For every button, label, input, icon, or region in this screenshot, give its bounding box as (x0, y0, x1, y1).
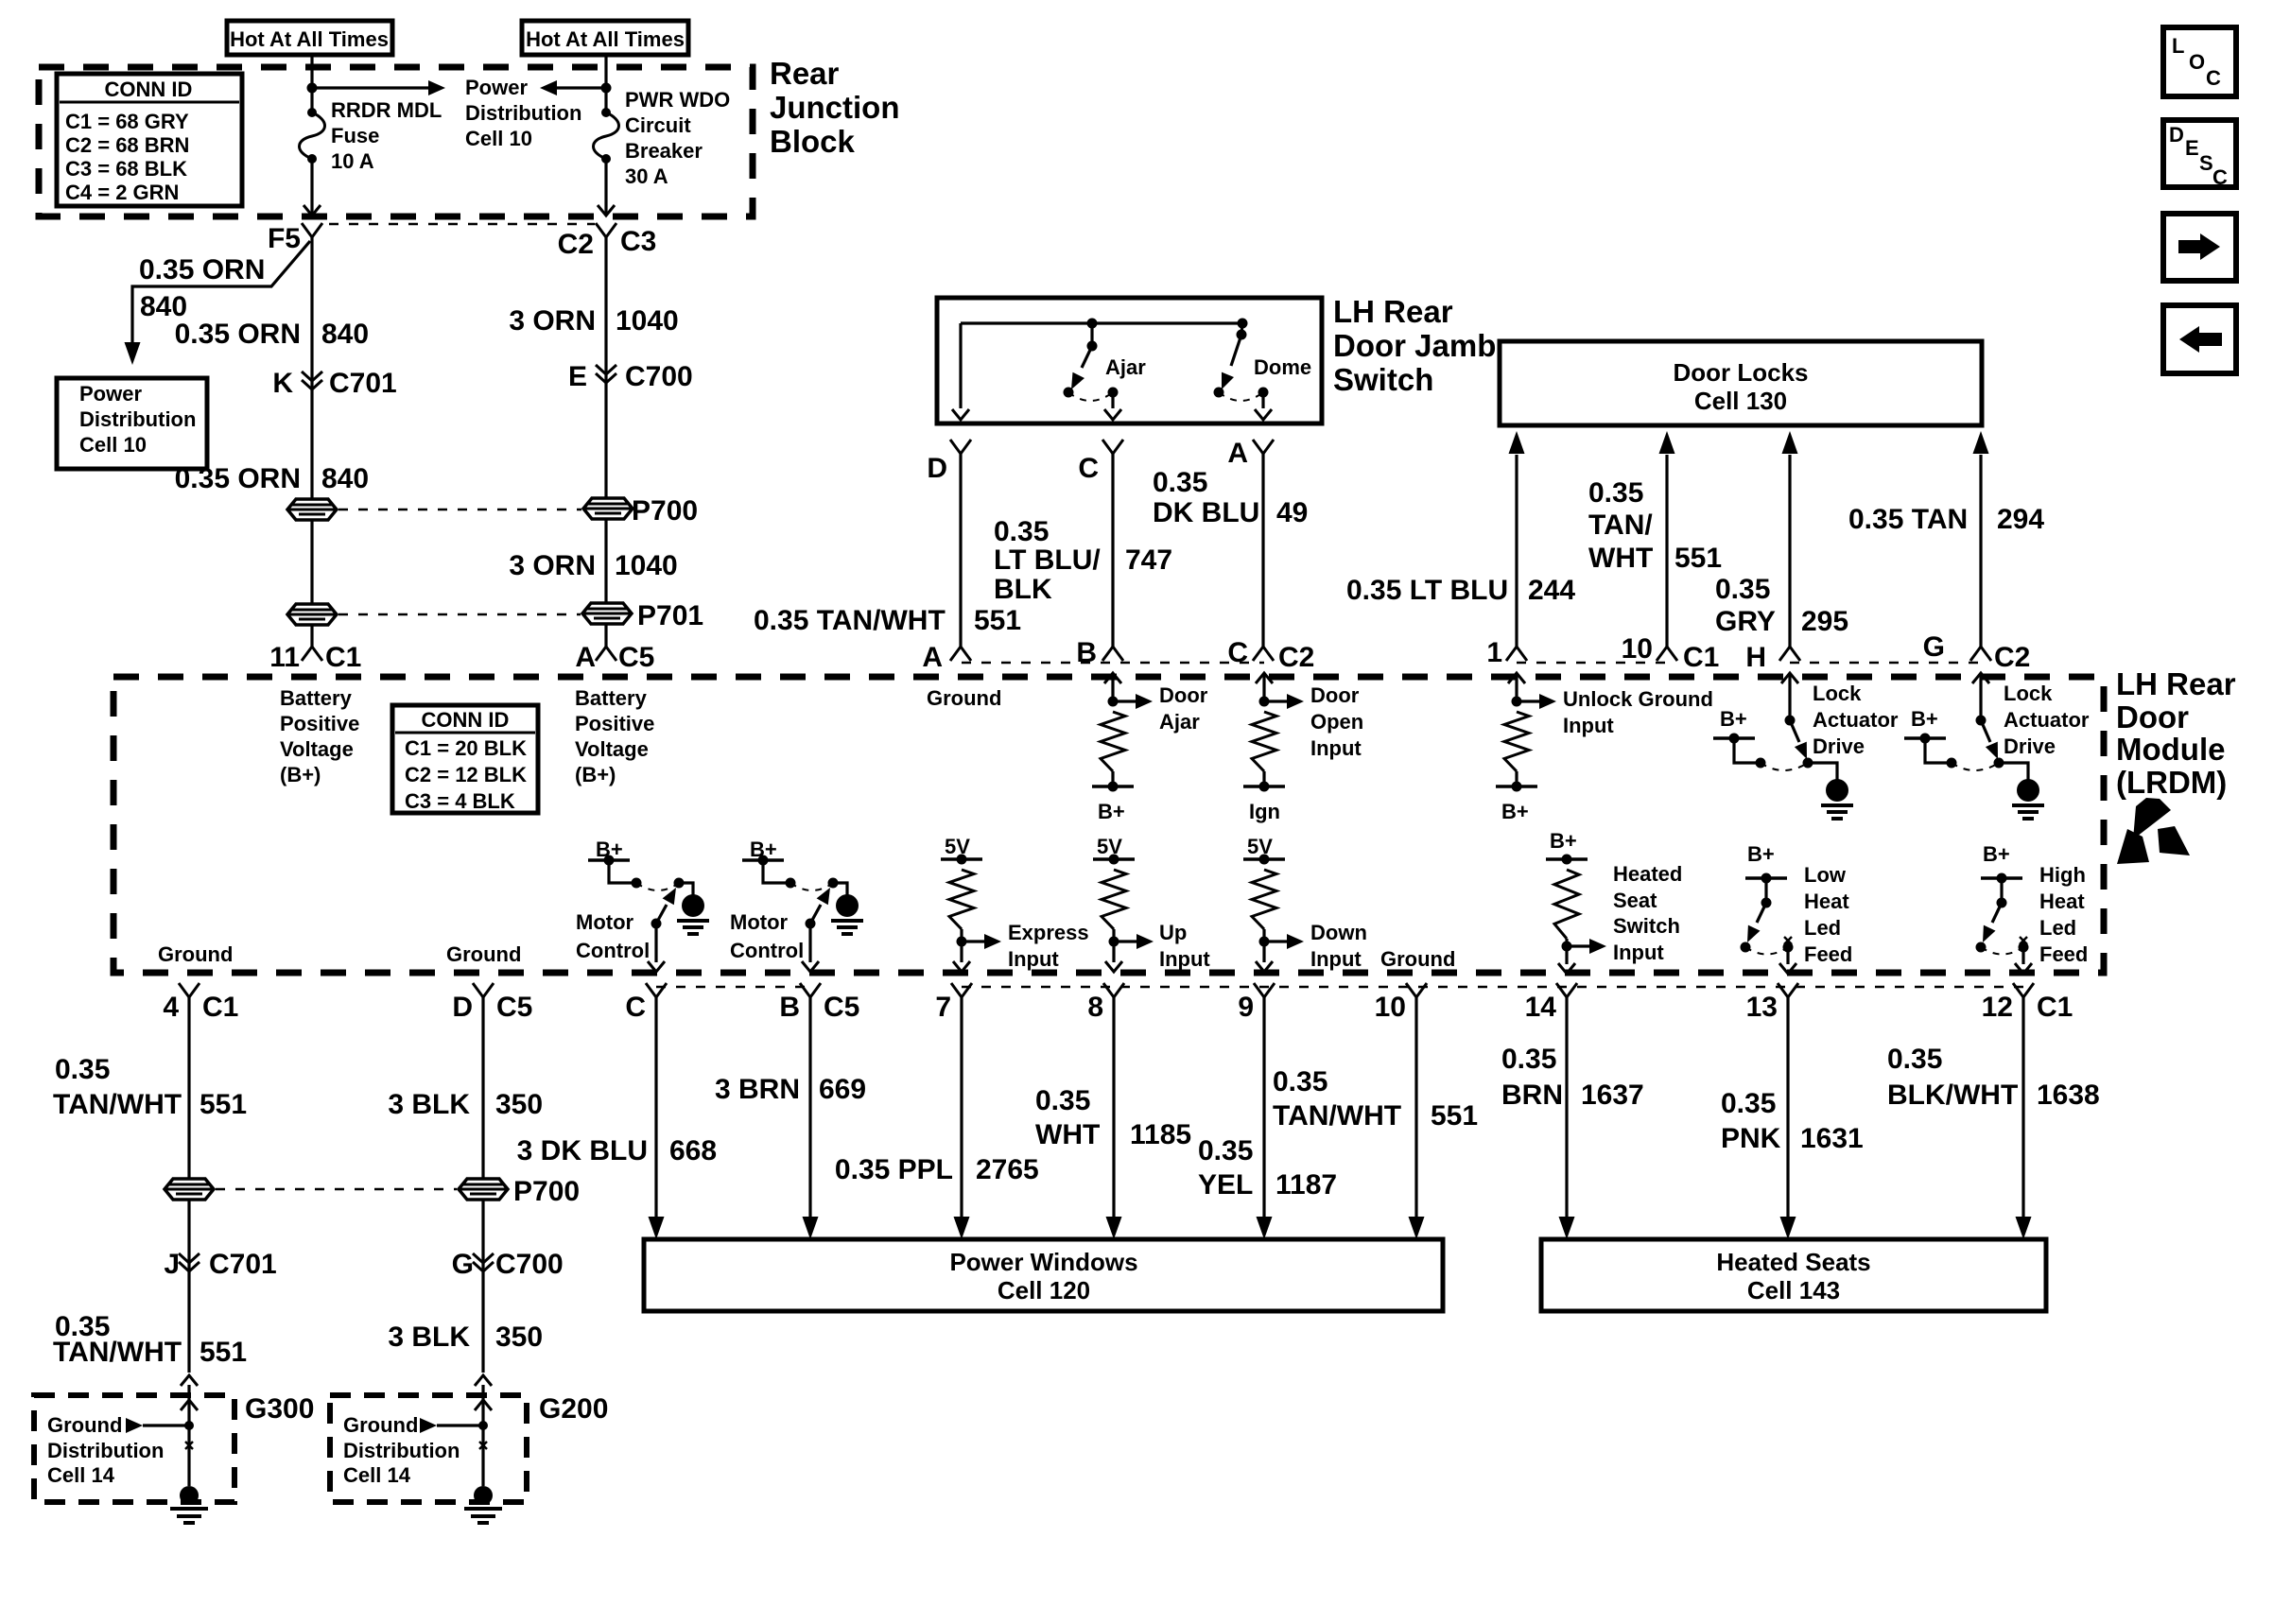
wire pin 8 (0.35 WHT 1185) (1112, 997, 1115, 1217)
wire A to module pin 11 (310, 625, 313, 647)
module pin 12 C1 (bottom) (2013, 983, 2034, 997)
svg-text:C2 = 12 BLK: C2 = 12 BLK (405, 763, 527, 786)
Hot At All Times box 2 (522, 21, 688, 55)
svg-text:0.35: 0.35 (1715, 574, 1770, 605)
svg-text:1040: 1040 (616, 305, 679, 337)
resistor Door (1111, 673, 1114, 701)
connector G C700 (481, 1200, 484, 1373)
svg-text:0.35 ORN: 0.35 ORN (175, 319, 301, 350)
svg-text:0.35 PPL: 0.35 PPL (835, 1154, 953, 1185)
svg-text:G200: G200 (539, 1393, 608, 1425)
svg-text:Heated Seats: Heated Seats (1716, 1248, 1870, 1276)
wire A (0.35 ORN 840) (310, 237, 313, 499)
svg-text:Ajar: Ajar (1105, 355, 1146, 379)
svg-text:J: J (164, 1249, 180, 1280)
svg-text:F5: F5 (268, 223, 301, 254)
svg-text:B+: B+ (1550, 829, 1577, 853)
svg-text:LT BLU/: LT BLU/ (994, 544, 1101, 576)
wire pin 10 to Door Locks (1665, 455, 1668, 647)
svg-text:Dome: Dome (1254, 355, 1311, 379)
svg-text:C1: C1 (1683, 642, 1719, 673)
wire A between P700 and P701 (310, 520, 313, 604)
ground distribution box G200 (330, 1395, 527, 1502)
svg-text:C1 = 68 GRY: C1 = 68 GRY (65, 110, 189, 133)
svg-text:Ground: Ground (158, 942, 233, 966)
svg-text:13: 13 (1746, 992, 1778, 1023)
svg-text:LH Rear: LH Rear (2116, 666, 2236, 701)
svg-text:5V: 5V (945, 835, 970, 858)
wire B between connectors (604, 519, 607, 603)
svg-text:D: D (927, 453, 947, 484)
module pin 10 (bottom) (1406, 983, 1427, 997)
wire pin 14 (0.35 BRN 1637) (1565, 997, 1568, 1217)
svg-text:0.35: 0.35 (1035, 1085, 1090, 1116)
wire pin B (3 BRN 669) (808, 997, 811, 1217)
module pin 8 (bottom) (1103, 983, 1124, 997)
wire pin C (3 DK BLU 668) (654, 997, 657, 1217)
svg-text:P700: P700 (632, 495, 698, 527)
svg-text:Breaker: Breaker (625, 139, 703, 163)
connector C2 / C3 (596, 223, 616, 237)
right arrow box (2163, 214, 2236, 281)
module pin B (1102, 647, 1123, 661)
inline connector P700 (left pair) (287, 499, 337, 520)
wire pin 10 (0.35 TAN/WHT 551) (1414, 997, 1417, 1217)
svg-text:Ign: Ign (1249, 800, 1280, 823)
svg-text:3 BLK: 3 BLK (388, 1089, 470, 1120)
svg-text:Junction: Junction (770, 90, 900, 125)
svg-text:High: High (2039, 863, 2086, 887)
module pin D C5 (bottom) (473, 983, 494, 997)
inline connector P701 (287, 604, 337, 625)
svg-text:Feed: Feed (1804, 942, 1852, 966)
module pin G C2 (1970, 647, 1991, 661)
connector F5 (junction block) (302, 223, 322, 237)
fuse RRDR MDL 10A (300, 112, 325, 159)
svg-text:B+: B+ (1098, 800, 1125, 823)
svg-text:Led: Led (1804, 916, 1841, 940)
wire branch 0.35 ORN 840 (132, 241, 310, 342)
svg-text:Motor: Motor (576, 910, 634, 934)
svg-text:BRN: BRN (1501, 1080, 1563, 1111)
svg-text:Door Locks: Door Locks (1673, 358, 1808, 387)
svg-text:G300: G300 (245, 1393, 314, 1425)
svg-text:O: O (2189, 50, 2205, 74)
svg-text:Voltage: Voltage (280, 737, 354, 761)
svg-text:0.35: 0.35 (1153, 467, 1207, 498)
svg-text:668: 668 (669, 1135, 717, 1166)
node: junction dot wire B top (601, 83, 612, 94)
splice mark on G200 wire (479, 1442, 487, 1449)
svg-text:49: 49 (1276, 497, 1308, 528)
svg-text:C1: C1 (2037, 992, 2073, 1023)
svg-text:Cell 14: Cell 14 (47, 1463, 115, 1487)
svg-text:Cell 130: Cell 130 (1694, 387, 1787, 415)
svg-text:WHT: WHT (1035, 1119, 1100, 1150)
Rear Junction Block dashed box (39, 67, 753, 216)
svg-text:3 BRN: 3 BRN (715, 1074, 800, 1105)
Heated Seats Cell 143 box (1541, 1239, 2046, 1311)
module pin A C5 (596, 647, 616, 661)
svg-text:551: 551 (974, 605, 1021, 636)
svg-text:Control: Control (730, 939, 804, 962)
svg-text:C1 = 20 BLK: C1 = 20 BLK (405, 736, 527, 760)
svg-text:Door: Door (1159, 683, 1208, 707)
jamb internal top wire (961, 321, 1242, 324)
svg-text:1631: 1631 (1800, 1123, 1864, 1154)
svg-text:Cell 10: Cell 10 (79, 433, 147, 457)
wire jamb C to module pin B (1111, 454, 1114, 647)
svg-text:C2: C2 (1278, 642, 1314, 673)
svg-text:C2: C2 (1994, 642, 2030, 673)
svg-text:5V: 5V (1097, 835, 1122, 858)
ground G200 (474, 1486, 493, 1505)
svg-text:CONN ID: CONN ID (422, 708, 510, 732)
svg-text:Input: Input (1310, 947, 1362, 971)
svg-text:TAN/WHT: TAN/WHT (1273, 1100, 1401, 1132)
DESC box (2163, 120, 2236, 187)
svg-text:C701: C701 (329, 368, 397, 399)
svg-text:840: 840 (321, 319, 369, 350)
wire: hot feed into circuit breaker (604, 55, 607, 112)
svg-text:Up: Up (1159, 921, 1187, 944)
svg-text:RRDR MDL: RRDR MDL (331, 98, 442, 122)
svg-text:Block: Block (770, 124, 856, 159)
wire pin 12 (0.35 BLK/WHT 1638) (2021, 997, 2024, 1217)
svg-text:Battery: Battery (280, 686, 353, 710)
splice mark on G300 wire (185, 1442, 193, 1449)
jamb connector C (1102, 440, 1123, 454)
svg-text:C3 = 4 BLK: C3 = 4 BLK (405, 789, 515, 813)
svg-text:Switch: Switch (1333, 362, 1433, 397)
svg-text:Led: Led (2039, 916, 2076, 940)
switch Lock Actuator Drive (1979, 673, 1982, 720)
svg-text:244: 244 (1528, 575, 1575, 606)
arrow (left) to Power Distribution (555, 86, 606, 89)
svg-text:669: 669 (819, 1074, 866, 1105)
svg-text:5V: 5V (1247, 835, 1273, 858)
Door Locks Cell 130 box (1500, 341, 1982, 425)
svg-text:350: 350 (495, 1089, 543, 1120)
svg-text:Motor: Motor (730, 910, 789, 934)
svg-text:B+: B+ (1747, 842, 1775, 866)
svg-text:D: D (2169, 123, 2184, 147)
svg-text:Door Jamb: Door Jamb (1333, 328, 1496, 363)
svg-text:Input: Input (1563, 714, 1614, 737)
svg-text:C2 = 68 BRN: C2 = 68 BRN (65, 133, 189, 157)
svg-text:C4 = 2 GRN: C4 = 2 GRN (65, 181, 179, 204)
module pin C (bottom) (646, 983, 667, 997)
svg-text:Cell 14: Cell 14 (343, 1463, 411, 1487)
wire B (3 ORN 1040) (604, 237, 607, 498)
svg-text:3 DK BLU: 3 DK BLU (517, 1135, 648, 1166)
svg-text:C2: C2 (558, 229, 594, 260)
resistor Unlock Ground Input (1515, 673, 1518, 701)
svg-text:G: G (1923, 631, 1945, 663)
svg-text:295: 295 (1801, 606, 1848, 637)
resistor Door (1262, 673, 1265, 701)
svg-text:Input: Input (1613, 941, 1664, 964)
svg-text:0.35 TAN: 0.35 TAN (1848, 504, 1968, 535)
svg-text:551: 551 (1431, 1100, 1478, 1132)
svg-text:C3 = 68 BLK: C3 = 68 BLK (65, 157, 187, 181)
svg-text:E: E (568, 361, 587, 392)
module pin 10 C1 (1657, 647, 1677, 661)
module pin 11 C1 (302, 647, 322, 661)
svg-text:0.35: 0.35 (1273, 1066, 1327, 1097)
inline connector P700 (bottom pair) (165, 1179, 214, 1200)
svg-text:0.35: 0.35 (55, 1054, 110, 1085)
Power Distribution Cell 10 box (57, 378, 207, 469)
svg-text:A: A (922, 642, 943, 673)
svg-text:B: B (779, 992, 800, 1023)
svg-text:Heated: Heated (1613, 862, 1682, 886)
jamb Ajar switch (1087, 319, 1098, 329)
svg-text:Ground: Ground (927, 686, 1001, 710)
svg-text:TAN/: TAN/ (1588, 510, 1653, 541)
svg-text:Lock: Lock (2004, 682, 2053, 705)
svg-text:Cell 143: Cell 143 (1747, 1276, 1840, 1304)
jamb connector D (950, 440, 971, 454)
module pin 7 (bottom) (951, 983, 972, 997)
svg-text:Distribution: Distribution (79, 407, 196, 431)
svg-text:1637: 1637 (1581, 1080, 1644, 1111)
svg-text:Down: Down (1310, 921, 1367, 944)
svg-text:Hot At All Times: Hot At All Times (230, 27, 389, 51)
svg-text:P700: P700 (513, 1176, 580, 1207)
svg-text:3 ORN: 3 ORN (509, 305, 596, 337)
svg-text:PNK: PNK (1721, 1123, 1781, 1154)
svg-text:0.35: 0.35 (994, 516, 1049, 547)
svg-text:294: 294 (1997, 504, 2044, 535)
svg-text:Express: Express (1008, 921, 1089, 944)
svg-text:YEL: YEL (1198, 1169, 1253, 1201)
module pin 4 C1 (bottom) (179, 983, 200, 997)
svg-text:Door: Door (1310, 683, 1360, 707)
svg-text:840: 840 (321, 463, 369, 494)
thin dashed pin lines (bottom row) (656, 986, 810, 989)
svg-text:C: C (625, 992, 646, 1023)
svg-text:0.35 ORN: 0.35 ORN (139, 254, 265, 285)
svg-text:C700: C700 (625, 361, 693, 392)
svg-text:Lock: Lock (1813, 682, 1862, 705)
connector E C700 (596, 365, 616, 374)
svg-text:1185: 1185 (1130, 1119, 1191, 1150)
svg-text:0.35: 0.35 (1887, 1044, 1942, 1075)
svg-text:Distribution: Distribution (343, 1439, 460, 1462)
svg-text:A: A (1227, 438, 1248, 469)
LH Rear Door Jamb Switch box (937, 298, 1322, 423)
svg-text:0.35 LT BLU: 0.35 LT BLU (1346, 575, 1508, 606)
svg-text:1: 1 (1486, 637, 1502, 668)
svg-text:S: S (2199, 151, 2213, 175)
svg-text:2765: 2765 (976, 1154, 1039, 1185)
svg-text:Actuator: Actuator (1813, 708, 1899, 732)
svg-text:Low: Low (1804, 863, 1847, 887)
wire pin 7 (0.35 PPL 2765) (960, 997, 963, 1217)
svg-text:Ground: Ground (1380, 947, 1455, 971)
wire pin H to Door Locks (1788, 455, 1791, 647)
svg-text:Power Windows: Power Windows (949, 1248, 1137, 1276)
svg-text:C700: C700 (495, 1249, 564, 1280)
module pin C C2 (1253, 647, 1274, 661)
svg-text:B+: B+ (1911, 707, 1938, 731)
svg-text:10 A: 10 A (331, 149, 374, 173)
svg-text:747: 747 (1125, 544, 1172, 576)
svg-text:Drive: Drive (2004, 734, 2056, 758)
jamb left leg to pin D (959, 323, 962, 408)
svg-text:B+: B+ (1983, 842, 2010, 866)
svg-text:0.35: 0.35 (1588, 477, 1643, 509)
svg-text:8: 8 (1087, 992, 1103, 1023)
svg-text:Power: Power (79, 382, 142, 406)
LOC box (2163, 27, 2236, 96)
svg-text:Battery: Battery (575, 686, 648, 710)
arrow to Power Distribution Cell 10 (312, 86, 430, 89)
svg-text:Ground: Ground (446, 942, 521, 966)
svg-text:CONN ID: CONN ID (105, 78, 193, 101)
svg-text:Drive: Drive (1813, 734, 1865, 758)
wire jamb D to module pin A (959, 454, 962, 647)
svg-text:TAN/WHT: TAN/WHT (53, 1089, 182, 1120)
svg-text:BLK: BLK (994, 574, 1052, 605)
thin dashed pin lines (top row) (962, 662, 1264, 665)
module pin H (1779, 647, 1800, 661)
wire below breaker with down arrow (604, 159, 607, 215)
svg-text:(LRDM): (LRDM) (2116, 765, 2227, 800)
svg-text:Rear: Rear (770, 56, 840, 91)
svg-text:7: 7 (935, 992, 951, 1023)
svg-text:C701: C701 (209, 1249, 277, 1280)
svg-text:Unlock Ground: Unlock Ground (1563, 687, 1713, 711)
wire pin G to Door Locks (1979, 455, 1982, 647)
svg-text:Hot At All Times: Hot At All Times (526, 27, 685, 51)
svg-text:DK BLU: DK BLU (1153, 497, 1259, 528)
CONN ID table (module) (392, 705, 538, 813)
svg-text:0.35: 0.35 (1721, 1088, 1776, 1119)
svg-text:B+: B+ (1720, 707, 1747, 731)
jamb Dome switch (1238, 319, 1248, 329)
svg-text:Cell 120: Cell 120 (998, 1276, 1090, 1304)
svg-text:L: L (2172, 34, 2184, 58)
svg-text:Switch: Switch (1613, 914, 1680, 938)
ground G300 (180, 1486, 199, 1505)
wire pin 9 (0.35 YEL 1187) (1262, 997, 1265, 1217)
svg-text:PWR WDO: PWR WDO (625, 88, 730, 112)
svg-text:TAN/WHT: TAN/WHT (53, 1337, 182, 1368)
wire below fuse with down arrow (310, 159, 313, 215)
svg-text:(B+): (B+) (575, 763, 616, 786)
dashed connector line F5 to C2/C3 (329, 223, 595, 226)
svg-text:Cell 10: Cell 10 (465, 127, 532, 150)
svg-text:0.35 ORN: 0.35 ORN (175, 463, 301, 494)
svg-text:551: 551 (1674, 543, 1722, 574)
svg-text:BLK/WHT: BLK/WHT (1887, 1080, 2018, 1111)
svg-text:Circuit: Circuit (625, 113, 691, 137)
svg-text:Fuse: Fuse (331, 124, 379, 147)
svg-text:9: 9 (1238, 992, 1254, 1023)
svg-text:H: H (1745, 642, 1766, 673)
svg-text:Positive: Positive (575, 712, 654, 735)
connector K C701 (302, 371, 322, 381)
svg-text:Feed: Feed (2039, 942, 2088, 966)
left arrow box (2163, 305, 2236, 373)
svg-text:C1: C1 (325, 642, 361, 673)
svg-text:Heat: Heat (1804, 890, 1849, 913)
ground distribution box G300 (34, 1395, 234, 1502)
svg-text:LH Rear: LH Rear (1333, 294, 1453, 329)
svg-text:1187: 1187 (1275, 1169, 1337, 1201)
svg-text:4: 4 (163, 992, 179, 1023)
module pin 14 (bottom) (1556, 983, 1577, 997)
svg-text:C1: C1 (202, 992, 238, 1023)
svg-text:Module: Module (2116, 732, 2225, 767)
svg-text:1638: 1638 (2037, 1080, 2100, 1111)
svg-text:C: C (2212, 165, 2228, 189)
CONN ID table (junction block) (57, 74, 242, 206)
svg-text:3 BLK: 3 BLK (388, 1322, 470, 1353)
svg-text:C5: C5 (824, 992, 859, 1023)
wire pin 1 to Door Locks (1515, 455, 1518, 647)
svg-text:D: D (452, 992, 473, 1023)
svg-text:551: 551 (200, 1089, 247, 1120)
svg-text:G: G (452, 1249, 474, 1280)
svg-text:C: C (2206, 66, 2221, 90)
svg-text:P701: P701 (637, 600, 703, 631)
svg-text:Ajar: Ajar (1159, 710, 1200, 734)
wire jamb A to module pin C (1261, 454, 1264, 647)
module pin 9 (bottom) (1254, 983, 1275, 997)
svg-text:30 A: 30 A (625, 164, 668, 188)
svg-text:Control: Control (576, 939, 650, 962)
svg-text:C5: C5 (496, 992, 532, 1023)
svg-text:0.35: 0.35 (1198, 1135, 1253, 1166)
svg-text:Voltage: Voltage (575, 737, 649, 761)
svg-text:Input: Input (1159, 947, 1210, 971)
module pin 13 (bottom) (1778, 983, 1798, 997)
circuit breaker PWR WDO 30A (594, 112, 619, 159)
Hot At All Times box 1 (227, 21, 392, 55)
svg-text:Power: Power (465, 76, 528, 99)
svg-text:C5: C5 (618, 642, 654, 673)
connector J C701 (187, 1200, 190, 1373)
svg-text:GRY: GRY (1715, 606, 1776, 637)
svg-text:12: 12 (1982, 992, 2013, 1023)
svg-text:Input: Input (1008, 947, 1059, 971)
svg-text:Open: Open (1310, 710, 1363, 734)
module pin 1 (1506, 647, 1527, 661)
svg-text:C: C (1078, 453, 1099, 484)
svg-text:Distribution: Distribution (465, 101, 581, 125)
wire pin D (3 BLK 350) (481, 997, 484, 1179)
svg-text:C3: C3 (620, 226, 656, 257)
svg-text:WHT: WHT (1588, 543, 1653, 574)
svg-text:Positive: Positive (280, 712, 359, 735)
svg-text:11: 11 (269, 642, 300, 673)
svg-text:K: K (272, 368, 293, 399)
svg-text:E: E (2185, 136, 2199, 160)
Power Windows Cell 120 box (644, 1239, 1443, 1311)
ESD sensitive symbol (2133, 798, 2171, 839)
svg-text:Ground: Ground (343, 1413, 418, 1437)
svg-text:(B+): (B+) (280, 763, 321, 786)
svg-text:A: A (575, 642, 596, 673)
svg-text:10: 10 (1622, 633, 1653, 665)
switch Lock Actuator Drive (1788, 673, 1791, 720)
svg-text:Heat: Heat (2039, 890, 2085, 913)
svg-text:350: 350 (495, 1322, 543, 1353)
svg-text:Seat: Seat (1613, 889, 1657, 912)
